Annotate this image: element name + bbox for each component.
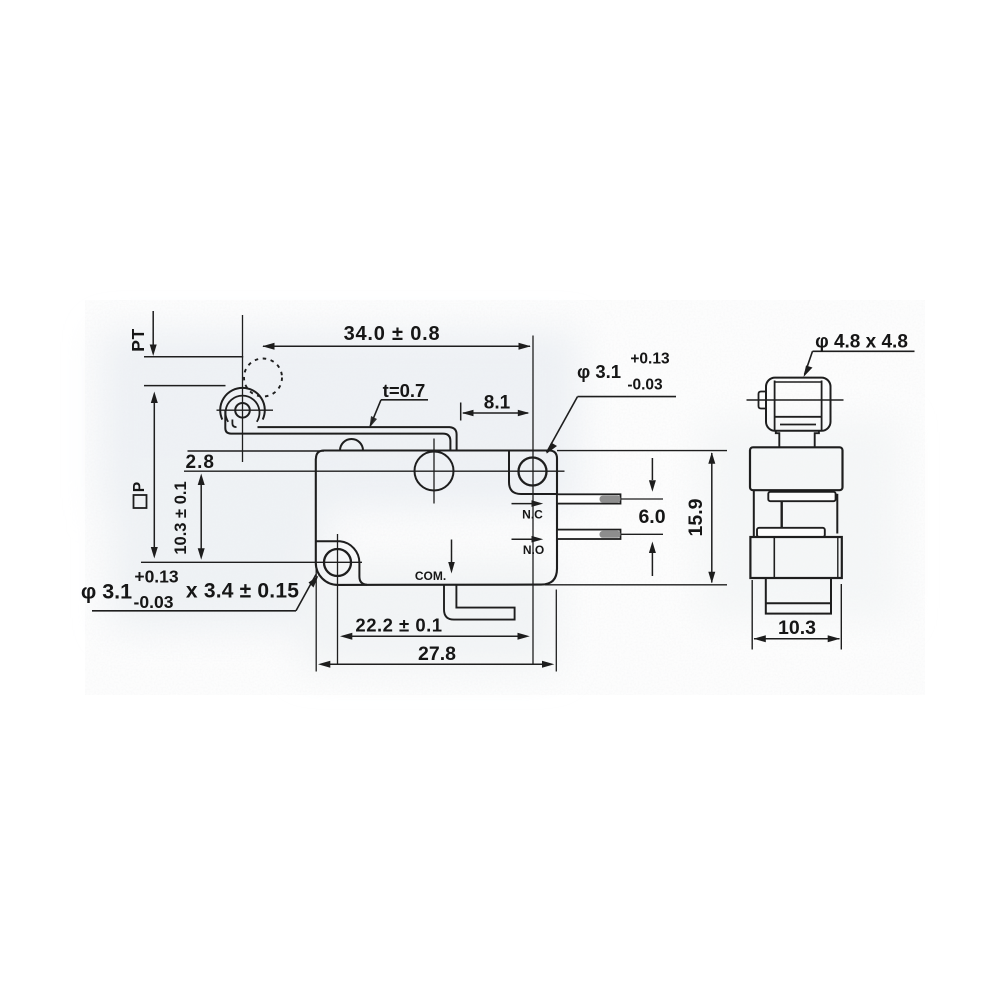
svg-text:27.8: 27.8 (418, 643, 456, 665)
plunger hole (top-middle circle) (415, 452, 454, 491)
22.2 left arrow (340, 633, 352, 640)
10.3 arrow down (198, 548, 205, 560)
COM arrow down (448, 562, 455, 574)
side block 2 right edge (836, 494, 838, 534)
mounting hole (top-right) (519, 458, 547, 486)
lever bracket inner edge (232, 420, 236, 428)
8.1 left arrow (462, 410, 474, 417)
svg-text:N.C: N.C (522, 508, 543, 522)
6.0 lower arrow up (649, 542, 656, 554)
side stem (776, 431, 819, 448)
side label underline (813, 350, 915, 352)
node: bottom-left hole vertical centerline (337, 534, 339, 664)
lever lower outline (225, 410, 450, 451)
dim PT line (152, 311, 154, 346)
10.3 side left arrow (754, 635, 766, 642)
mounting hole (bottom-left) (324, 549, 351, 576)
svg-text:10.3: 10.3 (778, 617, 816, 639)
dim 8.1 left extension tick (460, 403, 462, 421)
switch body outline (316, 451, 557, 585)
mounting-hole lobe detail bottom-left (316, 541, 367, 584)
roller outer rim (220, 388, 265, 420)
svg-text:-0.03: -0.03 (134, 592, 174, 612)
phi3.1 bottom leader arrow (309, 576, 319, 588)
OP arrow up (151, 392, 158, 404)
side roller centerline (747, 399, 844, 401)
reference line: roller top free position (144, 356, 243, 358)
svg-text:PT: PT (128, 328, 148, 351)
roller inner rim (226, 396, 260, 422)
svg-text:x 3.4 ± 0.15: x 3.4 ± 0.15 (186, 580, 299, 603)
COM terminal (L shape) (444, 585, 515, 620)
OP square symbol (134, 495, 147, 508)
svg-text:6.0: 6.0 (638, 506, 665, 528)
t=0.7 label underline (381, 399, 428, 401)
N.O annotation arrow line (512, 538, 535, 540)
flange inner right line (837, 537, 839, 578)
lever upper outline (258, 427, 457, 450)
svg-text:22.2 ± 0.1: 22.2 ± 0.1 (355, 615, 442, 636)
dim OP line (153, 400, 155, 550)
8.1 right arrow (518, 410, 530, 417)
side center terminal edge (781, 501, 783, 528)
side roller outer (766, 378, 831, 431)
boss around top-right hole (509, 451, 557, 495)
COM annotation arrow line (451, 540, 453, 565)
leader to bottom-left hole (296, 575, 316, 611)
dim 6.0 lower line (651, 553, 653, 576)
terminal N.C pin (557, 494, 621, 503)
reference line: operating position (144, 385, 226, 387)
N.C annotation arrow line (512, 503, 535, 505)
dim 22.2 line (352, 635, 518, 637)
svg-text:φ 3.1: φ 3.1 (577, 361, 621, 382)
terminal N.O pin (557, 530, 621, 539)
dim 10.3 line (200, 481, 202, 551)
side terminal bar 1 (768, 492, 835, 501)
N.C arrow right (532, 500, 544, 507)
dim 10.3 extensions (751, 580, 753, 650)
27.8 right arrow (542, 661, 554, 668)
svg-text:-0.03: -0.03 (627, 376, 663, 393)
dim 34.0 line (263, 345, 530, 347)
scan background tint (100, 330, 900, 670)
label bottom phi3.1 underline (92, 610, 296, 612)
dim 10.3 line (754, 638, 840, 640)
phi3.1 top leader arrow (547, 443, 558, 454)
side block 2 left edge (753, 490, 755, 537)
OP arrow down (151, 547, 158, 559)
node: roller horizontal centerline (217, 409, 274, 411)
15.9 top arrow up (708, 452, 715, 464)
phi4.8 leader arrow (804, 366, 813, 378)
svg-text:34.0 ± 0.8: 34.0 ± 0.8 (344, 323, 441, 345)
15.9 bottom arrow down (708, 572, 715, 584)
svg-text:2.8: 2.8 (186, 452, 215, 473)
N.O arrow right (532, 536, 544, 543)
N.O pin centerline extension (621, 533, 663, 535)
side roller inner faces (774, 381, 776, 431)
N.C pin centerline extension (621, 498, 663, 500)
dim 6.0 upper line (651, 458, 653, 480)
label top phi3.1 underline (578, 396, 677, 398)
left extension of body top edge (188, 450, 325, 452)
scan grain (85, 300, 925, 695)
body top edge right extension (557, 450, 727, 452)
body bottom edge right extension (545, 584, 727, 586)
side flange block (750, 537, 841, 578)
node: left reference line y=562 to hole (141, 561, 362, 563)
dim 15.9 line (711, 453, 713, 583)
svg-text:COM.: COM. (415, 569, 446, 583)
svg-text:φ 3.1: φ 3.1 (81, 580, 132, 604)
flange inner vertical line (773, 537, 775, 578)
node: horizontal centerline through holes (184, 470, 565, 472)
side roller lower edges (775, 416, 822, 418)
side block 1 (750, 447, 843, 490)
side label leader (805, 351, 813, 374)
plunger dome (340, 439, 363, 451)
roller hub (235, 403, 250, 418)
leader to top-right hole (547, 397, 578, 453)
svg-text:15.9: 15.9 (685, 498, 707, 536)
PT arrow down (150, 345, 157, 357)
t=0.7 leader (370, 400, 381, 426)
svg-text:+0.13: +0.13 (630, 350, 670, 367)
axle pin bump (759, 392, 767, 409)
svg-text:10.3 ± 0.1: 10.3 ± 0.1 (172, 481, 190, 554)
svg-text:8.1: 8.1 (484, 392, 511, 413)
10.3 side right arrow (828, 635, 840, 642)
node: roller vertical centerline (242, 315, 244, 462)
svg-text:t=0.7: t=0.7 (383, 380, 426, 401)
22.2 right arrow (518, 633, 530, 640)
side terminal bar 2 (757, 528, 825, 537)
34.0 right arrow (519, 343, 531, 350)
27.8 right extension (555, 590, 557, 672)
27.8 left extension (315, 566, 317, 672)
10.3 arrow up (198, 474, 205, 486)
svg-text:φ 4.8 x 4.8: φ 4.8 x 4.8 (815, 331, 908, 352)
dim 27.8 line (330, 663, 542, 665)
t=0.7 leader arrow (370, 416, 378, 428)
svg-text:N.O: N.O (523, 543, 544, 557)
node: top-right hole vertical centerline (532, 336, 534, 665)
6.0 upper arrow down (649, 480, 656, 492)
roller free position (dotted circle) (244, 359, 282, 397)
base strip line (766, 602, 831, 604)
27.8 left arrow (318, 661, 330, 668)
svg-text:P: P (131, 482, 148, 492)
svg-text:+0.13: +0.13 (134, 567, 179, 587)
side bottom block (766, 578, 831, 614)
34.0 left arrow (262, 343, 274, 350)
dim 8.1 line (463, 412, 528, 414)
node: plunger hole vertical centerline (433, 439, 435, 504)
